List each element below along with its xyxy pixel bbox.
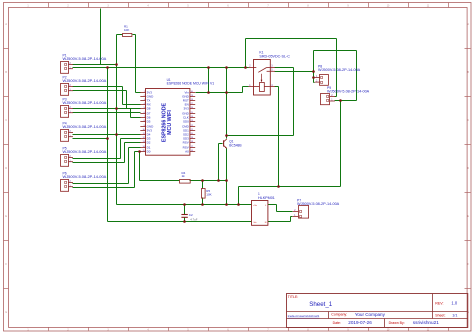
svg-text:10K: 10K bbox=[206, 193, 211, 197]
svg-text:3V3: 3V3 bbox=[183, 107, 189, 111]
svg-text:WJ500V-5.08-2P-14-00A: WJ500V-5.08-2P-14-00A bbox=[63, 56, 107, 61]
svg-text:WJ500V-5.08-2P-14-00A: WJ500V-5.08-2P-14-00A bbox=[63, 174, 107, 179]
svg-text:Your Company: Your Company bbox=[355, 312, 386, 317]
svg-text:SD0: SD0 bbox=[183, 120, 189, 124]
svg-text:D0: D0 bbox=[147, 150, 151, 154]
svg-text:WJ500V-5.08-2P-14-00A: WJ500V-5.08-2P-14-00A bbox=[318, 68, 361, 72]
svg-text:WJ500V-5.08-2P-14-00A: WJ500V-5.08-2P-14-00A bbox=[63, 149, 107, 154]
svg-text:SRD-05VDC-SL-C: SRD-05VDC-SL-C bbox=[259, 54, 290, 58]
svg-text:TITLE:: TITLE: bbox=[288, 295, 299, 299]
svg-text:ESP8266 NODE MCU WIFI V1: ESP8266 NODE MCU WIFI V1 bbox=[167, 81, 215, 85]
svg-text:MCU WIFI: MCU WIFI bbox=[167, 110, 173, 135]
svg-text:D8: D8 bbox=[147, 107, 151, 111]
svg-text:HLKPM01: HLKPM01 bbox=[258, 196, 275, 200]
svg-text:C2: C2 bbox=[189, 213, 193, 217]
svg-text:Drawn By:: Drawn By: bbox=[389, 321, 405, 325]
svg-text:10K: 10K bbox=[124, 28, 129, 32]
svg-text:4.7uF: 4.7uF bbox=[190, 218, 197, 222]
svg-text:Date:: Date: bbox=[333, 321, 341, 325]
svg-text:1k: 1k bbox=[182, 174, 186, 178]
svg-text:RSV: RSV bbox=[183, 141, 189, 145]
svg-text:2019-07-26: 2019-07-26 bbox=[348, 320, 372, 325]
svg-text:REV:: REV: bbox=[435, 301, 443, 305]
svg-text:lceda.cn/user/srivishnu21: lceda.cn/user/srivishnu21 bbox=[288, 314, 320, 318]
svg-text:1/1: 1/1 bbox=[452, 314, 457, 318]
svg-text:D2: D2 bbox=[147, 141, 151, 145]
svg-text:Sheet_1: Sheet_1 bbox=[309, 301, 333, 308]
svg-text:WJ500V-5.08-2P-14-00A: WJ500V-5.08-2P-14-00A bbox=[63, 124, 107, 129]
svg-text:WJ500V-5.08-2P-14-00A: WJ500V-5.08-2P-14-00A bbox=[327, 90, 370, 94]
svg-text:WJ500V-5.08-2P-14-00A: WJ500V-5.08-2P-14-00A bbox=[297, 202, 340, 206]
svg-text:ssrivishnu21: ssrivishnu21 bbox=[413, 320, 439, 325]
svg-text:BC548B: BC548B bbox=[229, 143, 242, 147]
svg-text:D5: D5 bbox=[147, 120, 151, 124]
svg-text:Company:: Company: bbox=[331, 313, 347, 317]
svg-text:G: G bbox=[5, 312, 7, 314]
svg-text:WJ500V-5.08-2P-14-00A: WJ500V-5.08-2P-14-00A bbox=[63, 78, 107, 83]
svg-text:WJ500V-5.08-2P-14-00A: WJ500V-5.08-2P-14-00A bbox=[63, 100, 107, 105]
svg-text:A0: A0 bbox=[185, 150, 189, 154]
svg-text:Sheet:: Sheet: bbox=[435, 314, 445, 318]
svg-text:1.0: 1.0 bbox=[451, 301, 457, 306]
